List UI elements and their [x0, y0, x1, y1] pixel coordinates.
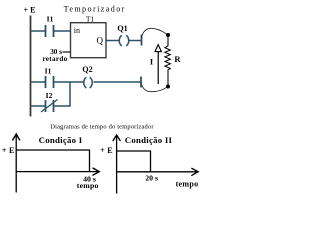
wire coil Q1 to contact [129, 40, 141, 42]
wire curve from Q2 contact to node B [142, 84, 167, 92]
svg-text:tempo: tempo [77, 181, 99, 190]
coil Q2 [84, 77, 92, 88]
svg-text:I1: I1 [45, 67, 52, 76]
coil Q1 [119, 35, 128, 46]
svg-text:tempo: tempo [176, 179, 199, 188]
switch bar (Q1 contact) [141, 35, 143, 46]
contact I2 (NC) [46, 100, 54, 112]
timer U T1 box [71, 23, 107, 58]
svg-text:+ E: + E [2, 146, 15, 155]
contact I1 (rung 2) [46, 76, 54, 88]
svg-text:Condição I: Condição I [39, 135, 83, 145]
node A (top junction) [166, 33, 170, 37]
slash of NC contact I2 [41, 100, 58, 113]
Condition II: vertical axis with arrow [116, 135, 118, 194]
wire rung2 left [31, 81, 46, 83]
wire branch I2 left [31, 105, 46, 107]
wire branch I2 right [54, 105, 71, 107]
Condition I: time axis [16, 171, 98, 173]
svg-text:Q2: Q2 [82, 65, 92, 74]
svg-text:Q1: Q1 [117, 24, 127, 33]
svg-text:I1: I1 [47, 15, 54, 24]
svg-text:+ E: + E [100, 146, 113, 155]
wire rung1 to timer [54, 30, 71, 32]
contact I1 (rung 1) [46, 25, 54, 37]
wire Q output [106, 40, 120, 42]
svg-text:20 s: 20 s [145, 173, 158, 182]
svg-text:Temporizador: Temporizador [64, 5, 126, 14]
svg-text:Condição II: Condição II [125, 135, 173, 145]
svg-text:+ E: + E [24, 6, 36, 15]
Condition I: pulse [16, 150, 89, 172]
wire branch join vertical [69, 82, 71, 106]
svg-text:I2: I2 [46, 91, 53, 100]
svg-text:retardo: retardo [42, 55, 67, 63]
svg-text:Diagramas de tempo do temporiz: Diagramas de tempo do temporizador [50, 124, 154, 131]
resistor R [165, 37, 170, 85]
wire curve to node A [142, 28, 167, 38]
wire coil Q2 to contact [94, 81, 141, 83]
wire rung2 middle [54, 81, 84, 83]
Condition II: pulse [117, 151, 151, 172]
node B (bottom junction) [166, 85, 170, 89]
Condition I: vertical axis with arrow [15, 134, 17, 193]
Condition II: time axis [117, 171, 198, 173]
svg-text:Q: Q [97, 35, 104, 45]
wire rung1 left [31, 30, 46, 32]
current arrow I [157, 52, 159, 84]
svg-text:in: in [74, 26, 80, 35]
svg-text:R: R [174, 54, 181, 64]
switch bar (Q2 contact) [140, 77, 142, 88]
power rail E [30, 16, 32, 117]
